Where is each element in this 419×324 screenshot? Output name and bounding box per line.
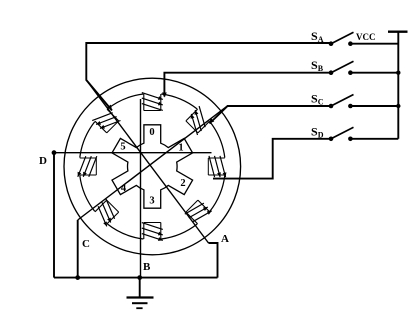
winding A lower-right pole xyxy=(185,200,212,224)
svg-text:C: C xyxy=(82,238,90,250)
common bottom wire xyxy=(54,277,218,279)
svg-text:1: 1 xyxy=(178,143,183,154)
inner stator circle (arcs between poles) xyxy=(80,94,225,239)
arrow into winding B top xyxy=(162,93,167,98)
svg-text:VCC: VCC xyxy=(356,32,376,42)
svg-text:A: A xyxy=(221,233,229,245)
svg-text:0: 0 xyxy=(149,127,154,138)
winding C lower-left pole xyxy=(95,199,119,227)
ground symbol xyxy=(127,298,154,309)
wire SA to phase A (top left) xyxy=(86,43,331,111)
wire SD to phase D right pole xyxy=(213,139,331,179)
wire A down to common xyxy=(209,243,218,278)
wire SB to phase B top xyxy=(164,73,331,97)
wire D down to common xyxy=(53,153,55,278)
winding B top pole xyxy=(142,93,163,111)
arrow into winding A xyxy=(107,105,112,110)
winding D left pole xyxy=(78,156,97,177)
VCC power bar xyxy=(388,31,408,33)
phase A axis wire (diagonal 135deg-315deg) xyxy=(86,80,208,243)
outer stator circle xyxy=(64,78,241,255)
rotor (6-tooth gear) xyxy=(112,125,193,208)
VCC rail xyxy=(397,32,399,139)
winding B bottom pole xyxy=(142,223,163,241)
winding C upper-right pole xyxy=(186,106,210,135)
phase B axis wire (vertical, top pole to bottom pole to common) xyxy=(140,99,142,278)
phase D axis wire (horizontal, D node through both poles) xyxy=(54,152,212,154)
svg-text:D: D xyxy=(39,155,47,167)
rail junction dots xyxy=(396,71,400,75)
winding A upper-left pole xyxy=(92,109,120,133)
wire SC to phase C xyxy=(210,106,332,124)
switch SD xyxy=(329,127,399,141)
switch SC xyxy=(329,95,399,109)
node D xyxy=(52,150,57,155)
svg-text:B: B xyxy=(143,261,151,273)
ground stem xyxy=(139,278,141,298)
node B junction xyxy=(137,275,142,280)
phase C axis wire (diagonal 45deg-225deg) xyxy=(78,106,228,220)
svg-text:3: 3 xyxy=(149,196,154,207)
arrow into winding C xyxy=(209,118,214,123)
svg-text:5: 5 xyxy=(120,142,125,153)
switch SB xyxy=(329,61,399,75)
wire C down to common xyxy=(77,220,79,278)
winding D right pole xyxy=(208,156,226,177)
svg-text:2: 2 xyxy=(180,178,185,189)
node C junction xyxy=(75,275,80,280)
switch SA xyxy=(329,32,399,46)
